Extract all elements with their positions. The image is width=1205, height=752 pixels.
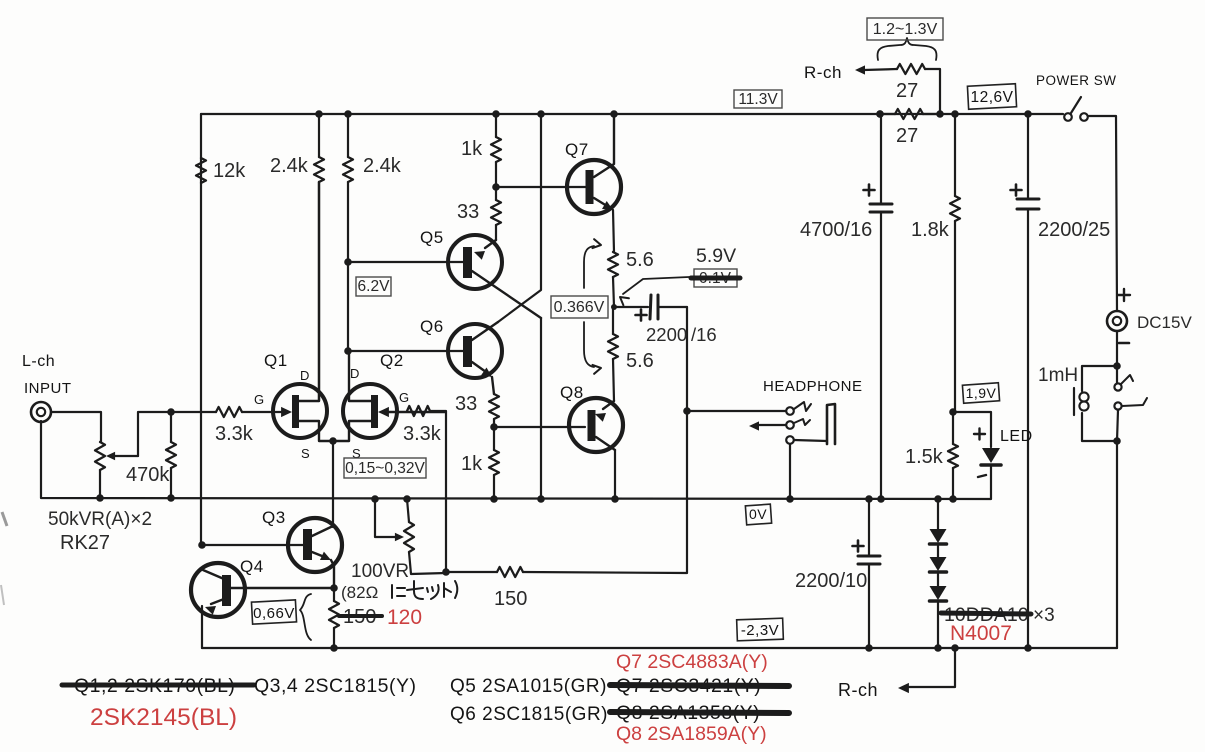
wire Q2 gate 3.3k to feedback xyxy=(430,411,446,572)
wire source junction down to Q3 collector xyxy=(332,441,334,527)
node 100VR top junction xyxy=(403,495,411,503)
transistor Q5 2SA1015 xyxy=(448,235,502,289)
label 0.15-0.32V boxed xyxy=(344,458,426,478)
svg-text:Q5: Q5 xyxy=(420,228,444,247)
svg-text:S: S xyxy=(301,446,310,461)
wire Q6 collector to top rail xyxy=(537,110,545,118)
wire 33 upper leads xyxy=(495,187,497,200)
curved arrow upper xyxy=(584,246,594,288)
resistor 12k xyxy=(196,158,206,183)
label DC15V minus xyxy=(1119,342,1129,345)
svg-text:11.3V: 11.3V xyxy=(738,91,778,108)
node 4700 cap ground xyxy=(877,495,885,503)
svg-text:Q7 2SC4883A(Y): Q7 2SC4883A(Y) xyxy=(616,651,768,673)
svg-text:3.3k: 3.3k xyxy=(403,423,442,445)
wire 100VR top lead xyxy=(407,499,409,522)
resistor 3.3k (Q2 gate) xyxy=(407,406,430,416)
headphone jack tip contact xyxy=(786,407,794,415)
wire 5.6 upper to node xyxy=(613,277,614,307)
resistor 27 on rail xyxy=(895,109,923,119)
resistor 33 upper xyxy=(491,200,501,225)
resistor 470k xyxy=(166,442,176,468)
svg-text:Q3: Q3 xyxy=(262,508,286,527)
node 120 resistor bottom on -rail xyxy=(330,644,338,652)
battery switch contacts xyxy=(1116,366,1118,383)
node feedback junction 3.3k/150 xyxy=(442,568,450,576)
wire wiper to gate line xyxy=(138,412,216,456)
svg-text:4700/16: 4700/16 xyxy=(800,219,872,241)
svg-text:2.4k: 2.4k xyxy=(270,155,309,177)
wire D2-D3 xyxy=(937,574,939,586)
brace 1.2-1.3V xyxy=(877,38,936,60)
node Q8 collector ground xyxy=(611,495,619,503)
resistor 1k lower xyxy=(489,450,499,475)
switch POWER SW xyxy=(1064,113,1072,121)
transistor Q6 2SC1815 xyxy=(448,324,502,378)
wire 2.4k no.2 leads xyxy=(347,114,349,157)
svg-text:HEADPHONE: HEADPHONE xyxy=(763,378,863,395)
transistor Q8 2SA1859A xyxy=(569,398,623,452)
wire 2.4k no.1 leads xyxy=(318,114,320,157)
node 2200/25 top rail xyxy=(1024,110,1032,118)
wire R-ch bottom branch xyxy=(908,648,955,687)
resistor 1k upper xyxy=(491,137,501,162)
node 1.9V LED junction xyxy=(949,408,957,416)
svg-text:LED: LED xyxy=(1000,428,1033,445)
svg-text:N4007: N4007 xyxy=(950,622,1012,645)
svg-text:2200: 2200 xyxy=(646,324,687,345)
wire top rail right of power switch xyxy=(1089,116,1117,311)
svg-text:L-ch: L-ch xyxy=(22,353,55,370)
wire -2.3V bottom rail xyxy=(202,647,1117,649)
label 12,6V boxed xyxy=(967,84,1016,109)
arrow from 0.1V to output node xyxy=(623,277,689,294)
svg-text:DC15V: DC15V xyxy=(1137,313,1192,332)
svg-text:470k: 470k xyxy=(126,464,170,486)
wire headphone sleeve to ground xyxy=(789,444,791,499)
wire 1k lower leads xyxy=(493,427,495,450)
wire 1k upper leads xyxy=(495,114,497,137)
svg-text:RK27: RK27 xyxy=(60,532,110,554)
node R-ch bottom junction xyxy=(951,644,959,652)
svg-text:0,15~0,32V: 0,15~0,32V xyxy=(345,460,425,477)
svg-text:12,6V: 12,6V xyxy=(970,89,1013,106)
node Q8 base junction xyxy=(490,423,498,431)
svg-text:D: D xyxy=(350,366,360,381)
svg-text:1.8k: 1.8k xyxy=(911,219,950,241)
node headphone ground xyxy=(786,495,794,503)
node 1.5k ground xyxy=(949,495,957,503)
label DC15V plus xyxy=(1118,289,1130,301)
label 0.366V boxed xyxy=(551,296,608,318)
wire 120 resistor leads xyxy=(333,588,335,601)
node 2200/25 bottom -rail xyxy=(1024,644,1032,652)
resistor 5.6 upper xyxy=(608,252,618,277)
label 0.1V struck boxed xyxy=(694,269,737,287)
resistor 33 lower xyxy=(489,394,499,419)
node 2200/10 top ground xyxy=(865,495,873,503)
svg-text:1,9V: 1,9V xyxy=(966,385,997,401)
label 0V boxed xyxy=(745,504,771,525)
wire 27 to R-ch arrow xyxy=(864,69,897,70)
svg-text:Q5 2SA1015(GR): Q5 2SA1015(GR) xyxy=(450,676,607,697)
svg-text:27: 27 xyxy=(896,80,918,102)
capacitor 2200/16 output xyxy=(614,306,648,308)
resistor 2.4k no.1 xyxy=(314,157,324,182)
svg-text:1k: 1k xyxy=(461,453,483,475)
wire 150 line to output node xyxy=(446,571,497,573)
transistor Q1 2SK2145 JFET xyxy=(273,384,327,438)
resistor 3.3k (Q1 gate) xyxy=(216,407,242,417)
wire +11.3V top rail xyxy=(201,113,1063,115)
wire right edge vertical (DC input return) xyxy=(1116,441,1118,648)
diode D1 1N4007 xyxy=(930,529,947,543)
LED symbol xyxy=(982,448,1000,463)
node rail 27 junction left xyxy=(876,110,884,118)
curved arrow lower xyxy=(584,322,594,367)
transistor Q4 2SC1815 xyxy=(191,563,245,617)
node L-ch input jack xyxy=(31,402,51,422)
node inductor branch bottom xyxy=(1113,437,1121,445)
wire 0V ground rail xyxy=(41,421,991,499)
resistor 27 to R-ch xyxy=(897,64,925,74)
svg-text:6.2V: 6.2V xyxy=(358,278,391,295)
svg-text:3.3k: 3.3k xyxy=(215,423,254,445)
pot wiper arrow xyxy=(115,455,138,457)
svg-text:Q2: Q2 xyxy=(380,351,404,370)
svg-text:INPUT: INPUT xyxy=(24,380,72,397)
svg-text:0.366V: 0.366V xyxy=(554,299,605,316)
node output 0.366V xyxy=(611,304,617,310)
node Q4 base / Q3 emitter junction xyxy=(330,584,338,592)
node rail 27 junction right xyxy=(936,110,944,118)
svg-text:0V: 0V xyxy=(749,506,767,522)
node 470k bottom junction xyxy=(167,494,175,502)
wire 100VR wiper xyxy=(375,499,396,537)
wire 470k leads xyxy=(170,412,172,442)
node 100VR wiper rail junction xyxy=(371,495,379,503)
svg-text:150: 150 xyxy=(494,588,527,610)
label 0,66V boxed xyxy=(251,600,296,624)
svg-text:Q3,4 2SC1815(Y): Q3,4 2SC1815(Y) xyxy=(254,675,417,697)
svg-text:2.4k: 2.4k xyxy=(363,155,402,177)
svg-text:33: 33 xyxy=(457,201,479,223)
svg-text:0,66V: 0,66V xyxy=(253,605,295,622)
wire 33 lower lead xyxy=(493,419,495,427)
brace for 0.66V xyxy=(300,594,311,640)
svg-text:5.9V: 5.9V xyxy=(696,245,736,267)
node inductor branch top xyxy=(1113,362,1121,370)
node Q3 base junction xyxy=(198,541,206,549)
resistor 2.4k no.2 xyxy=(343,157,353,182)
node 470k top junction xyxy=(167,408,175,416)
node 1.8k top rail xyxy=(951,110,959,118)
svg-text:1k: 1k xyxy=(461,138,483,160)
resistor 5.6 lower xyxy=(608,334,618,359)
wire DC jack to switch node xyxy=(1116,331,1118,366)
node Q2 drain junction xyxy=(344,347,352,355)
svg-text:1.2~1.3V: 1.2~1.3V xyxy=(873,21,938,38)
node 4700 cap top rail xyxy=(876,110,884,118)
node Q7 collector top rail xyxy=(610,110,618,118)
node 2200/10 bottom xyxy=(865,644,873,652)
svg-text:27: 27 xyxy=(896,125,918,147)
wire Q8 collector to ground xyxy=(614,450,616,499)
svg-text:2200/10: 2200/10 xyxy=(795,570,867,592)
svg-text:100VR: 100VR xyxy=(351,561,409,582)
wire Q8 base line xyxy=(494,426,585,428)
svg-text:12k: 12k xyxy=(213,160,246,182)
node Q7 base junction xyxy=(492,183,500,191)
LED plus label xyxy=(974,429,985,440)
node output to headphone xyxy=(683,407,691,415)
headphone jack sleeve contact xyxy=(786,436,794,444)
scan artifact left edge xyxy=(2,512,7,526)
wire diode chain top lead xyxy=(937,499,939,529)
label -2,3V boxed xyxy=(737,618,784,641)
node 1k top rail xyxy=(492,110,500,118)
node top rail / 2.4k no.2 xyxy=(344,110,352,118)
svg-text:Q8: Q8 xyxy=(560,383,584,402)
wire input jack to volume pot xyxy=(51,412,101,442)
wire 5.6 lower to Q8 emitter xyxy=(612,307,614,334)
resistor 120 (was 150) Q3 emitter xyxy=(329,601,339,628)
svg-text:5.6: 5.6 xyxy=(626,350,654,372)
wire D3 to -rail xyxy=(937,603,939,648)
headphone plug symbol xyxy=(827,404,835,444)
capacitor 4700/16 xyxy=(880,114,882,203)
diode D2 1N4007 xyxy=(930,557,947,571)
node pot bottom junction xyxy=(96,494,104,502)
wire Q6 base line xyxy=(348,350,464,352)
svg-text:D: D xyxy=(300,368,310,383)
svg-text:POWER SW: POWER SW xyxy=(1036,73,1117,88)
svg-text:-2,3V: -2,3V xyxy=(741,622,779,639)
svg-text:Q7: Q7 xyxy=(565,140,589,159)
svg-text:Q8 2SA1859A(Y): Q8 2SA1859A(Y) xyxy=(616,723,767,745)
svg-text:R-ch: R-ch xyxy=(804,63,842,82)
headphone jack ring contact / R-ch feed arrow xyxy=(786,421,794,429)
svg-text:1mH: 1mH xyxy=(1038,365,1078,386)
potentiometer 50kVR top half xyxy=(95,442,105,470)
capacitor 2200/25 xyxy=(1027,114,1029,198)
wire Q4 emitter to -rail xyxy=(201,606,203,648)
svg-text:Q6: Q6 xyxy=(420,317,444,336)
node Q1 Q2 source junction xyxy=(329,437,337,445)
node diode chain bottom xyxy=(934,644,942,652)
inductor 1mH branch xyxy=(1082,366,1117,391)
wire 100VR bottom to 150 line xyxy=(409,552,446,574)
transistor Q3 2SC1815 xyxy=(288,518,342,572)
wire Q7 emitter to 5.6 xyxy=(613,210,614,252)
label 1,9V boxed xyxy=(962,383,999,403)
LED branch wire xyxy=(953,412,991,447)
DC jack DC15V xyxy=(1107,311,1127,331)
svg-text:2200/25: 2200/25 xyxy=(1038,219,1110,241)
svg-text:R-ch: R-ch xyxy=(838,680,878,700)
node 6.2V tap xyxy=(344,258,352,266)
svg-text:Q1: Q1 xyxy=(264,351,288,370)
label 1.2-1.3V boxed xyxy=(867,18,943,40)
wire Q5 collector to ground rail xyxy=(540,318,542,499)
svg-text:G: G xyxy=(399,390,410,405)
resistor 1.5k xyxy=(952,412,954,444)
wire 3.3k to Q1 gate xyxy=(242,411,282,413)
svg-text:/16: /16 xyxy=(691,324,717,345)
wire pot bottom to ground xyxy=(99,470,101,498)
svg-text:120: 120 xyxy=(387,606,422,629)
svg-text:G: G xyxy=(254,392,265,407)
wire output node to headphone tip xyxy=(687,410,786,412)
node Q5 collector ground xyxy=(537,495,545,503)
svg-text:2SK2145(BL): 2SK2145(BL) xyxy=(90,704,237,731)
diode D3 1N4007 xyxy=(930,586,947,600)
transistor Q7 2SC4883A xyxy=(567,160,621,214)
node diode chain top ground xyxy=(934,495,942,503)
node 1k lower ground xyxy=(490,495,498,503)
node top rail / 2.4k no.1 xyxy=(315,110,323,118)
svg-text:50kVR(A)×2: 50kVR(A)×2 xyxy=(48,509,152,530)
label 6.2V boxed xyxy=(356,277,391,296)
svg-text:1.5k: 1.5k xyxy=(905,446,944,468)
resistor 1.8k xyxy=(954,114,956,196)
wire left vertical branch (12k bias column) xyxy=(200,114,202,545)
svg-text:(82Ω: (82Ω xyxy=(341,583,378,602)
svg-text:Q4: Q4 xyxy=(240,557,264,576)
LED minus label xyxy=(978,475,986,477)
svg-text:S: S xyxy=(352,446,361,461)
svg-text:5.6: 5.6 xyxy=(626,249,654,271)
potentiometer 100VR xyxy=(404,522,414,552)
wire R-ch branch up xyxy=(925,69,940,114)
capacitor 2200/10 xyxy=(868,499,870,555)
svg-text:Q6 2SC1815(GR): Q6 2SC1815(GR) xyxy=(450,704,608,725)
wire Q3 base line xyxy=(202,544,303,546)
svg-text:×3: ×3 xyxy=(1033,605,1055,626)
wire Q5 base line xyxy=(348,261,464,263)
svg-text:33: 33 xyxy=(455,393,477,415)
wire Q7 base line xyxy=(496,186,586,188)
transistor Q2 2SK2145 JFET xyxy=(343,384,397,438)
resistor 150 feedback xyxy=(497,567,523,577)
wire D1-D2 xyxy=(937,546,939,557)
label 11.3V boxed xyxy=(734,90,782,108)
